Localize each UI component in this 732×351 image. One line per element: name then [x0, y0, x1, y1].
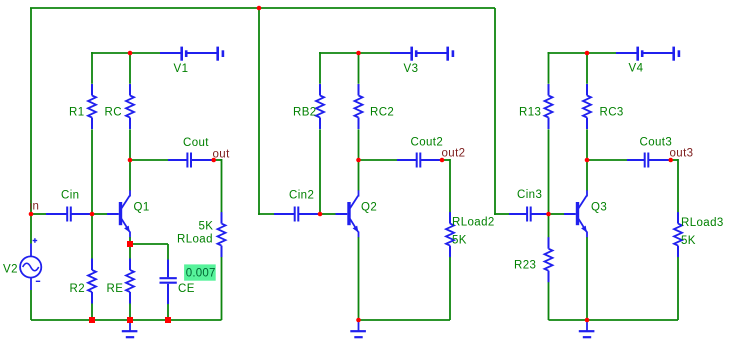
svg-text:V2: V2: [3, 263, 18, 275]
svg-text:RLoad: RLoad: [177, 233, 213, 245]
svg-text:out3: out3: [670, 147, 694, 159]
svg-text:Q3: Q3: [591, 201, 607, 213]
svg-text:V4: V4: [629, 62, 644, 74]
svg-text:R2: R2: [70, 283, 86, 295]
svg-text:RLoad3: RLoad3: [681, 217, 724, 229]
svg-text:RC2: RC2: [370, 107, 394, 119]
svg-text:in: in: [30, 201, 40, 213]
svg-text:5K: 5K: [452, 234, 467, 246]
svg-text:RE: RE: [107, 283, 124, 295]
svg-text:5K: 5K: [199, 221, 214, 233]
svg-text:out: out: [213, 148, 231, 160]
svg-text:Cin2: Cin2: [289, 189, 314, 201]
svg-text:CE: CE: [178, 283, 195, 295]
svg-text:V3: V3: [404, 63, 419, 75]
svg-text:Q2: Q2: [361, 201, 377, 213]
svg-text:out2: out2: [442, 147, 466, 159]
svg-text:Q1: Q1: [134, 201, 150, 213]
svg-text:5K: 5K: [681, 235, 696, 247]
svg-text:R1: R1: [69, 107, 85, 119]
svg-text:RLoad2: RLoad2: [452, 217, 495, 229]
svg-text:Cout: Cout: [183, 137, 209, 149]
svg-text:R23: R23: [514, 259, 536, 271]
svg-text:Cin3: Cin3: [517, 189, 542, 201]
svg-text:RC3: RC3: [600, 107, 624, 119]
svg-text:0.007: 0.007: [186, 268, 216, 280]
svg-text:RB2: RB2: [293, 107, 317, 119]
svg-text:Cin: Cin: [61, 189, 79, 201]
svg-text:Cout2: Cout2: [411, 136, 444, 148]
svg-text:R13: R13: [519, 107, 541, 119]
svg-text:V1: V1: [174, 63, 189, 75]
svg-text:RC: RC: [105, 107, 122, 119]
svg-text:Cout3: Cout3: [640, 136, 673, 148]
